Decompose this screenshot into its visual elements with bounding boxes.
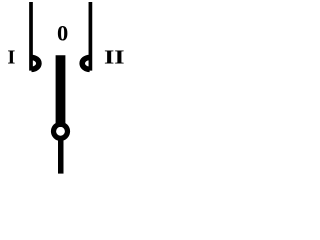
switch lever (moving contact, position 0) <box>56 55 66 127</box>
svg-text:I: I <box>7 46 15 68</box>
svg-text:II: II <box>104 47 125 69</box>
svg-text:0: 0 <box>57 21 68 46</box>
contact I hook <box>32 58 39 70</box>
pivot ring <box>54 124 68 138</box>
wire (common terminal, downward) <box>58 138 64 174</box>
contact II wire (right fixed contact stem) <box>89 2 93 71</box>
contact I wire (left fixed contact stem) <box>29 2 33 71</box>
contact II hook <box>82 58 89 70</box>
